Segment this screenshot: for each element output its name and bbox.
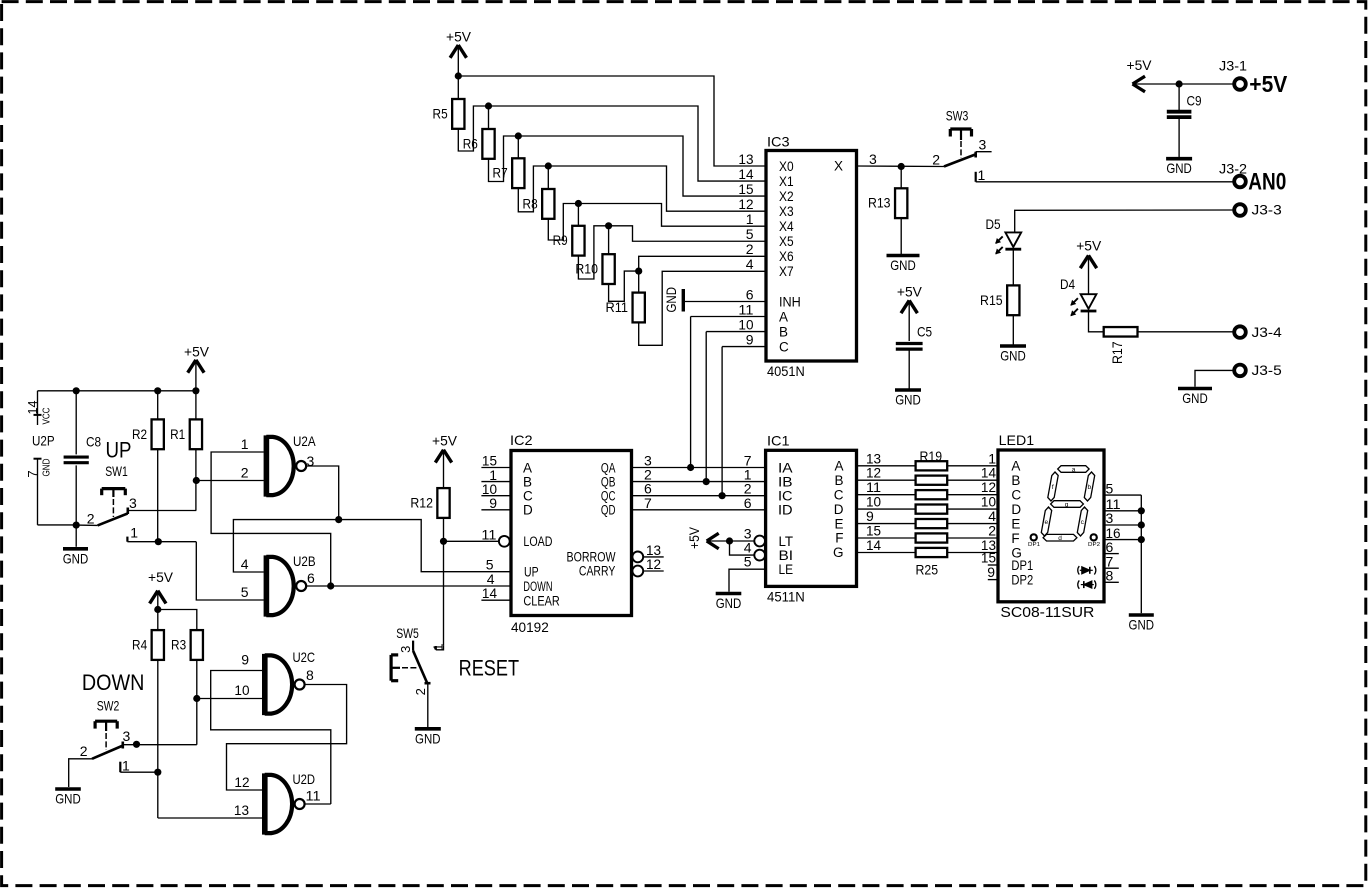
svg-text:R15: R15 (980, 292, 1003, 308)
svg-text:6: 6 (744, 495, 752, 511)
svg-text:7: 7 (644, 495, 652, 511)
svg-text:C: C (1011, 488, 1021, 503)
svg-text:b: b (1087, 484, 1091, 491)
svg-text:12: 12 (234, 774, 249, 790)
svg-text:f: f (1052, 484, 1054, 491)
svg-text:+5V: +5V (897, 283, 923, 299)
svg-text:G: G (833, 545, 844, 560)
svg-text:GND: GND (716, 595, 742, 611)
svg-text:DOWN: DOWN (82, 670, 144, 695)
svg-text:2: 2 (746, 241, 754, 257)
svg-text:B: B (779, 324, 788, 339)
svg-text:A: A (779, 309, 788, 324)
svg-text:U2A: U2A (293, 433, 316, 449)
svg-text:40192: 40192 (511, 619, 549, 635)
svg-text:F: F (1011, 531, 1019, 546)
svg-text:D: D (834, 502, 844, 517)
svg-text:14: 14 (482, 585, 497, 601)
svg-text:3: 3 (129, 495, 137, 511)
svg-text:BI: BI (779, 548, 794, 563)
svg-text:12: 12 (646, 556, 661, 572)
svg-text:QC: QC (601, 489, 616, 504)
svg-text:3: 3 (123, 728, 131, 744)
svg-text:1: 1 (241, 436, 249, 452)
svg-text:GND: GND (890, 257, 916, 273)
svg-text:SW2: SW2 (97, 698, 120, 714)
svg-text:VCC: VCC (42, 408, 53, 425)
svg-text:6: 6 (307, 570, 315, 586)
svg-text:4051N: 4051N (767, 363, 805, 379)
svg-text:X6: X6 (779, 249, 794, 264)
svg-text:LT: LT (779, 534, 794, 549)
svg-text:1: 1 (978, 167, 986, 183)
svg-text:9: 9 (241, 652, 249, 668)
svg-text:2: 2 (80, 743, 88, 759)
svg-text:DP2: DP2 (1088, 542, 1100, 548)
svg-text:1: 1 (122, 758, 130, 774)
svg-text:C: C (834, 487, 844, 502)
svg-text:F: F (835, 531, 843, 546)
svg-text:C8: C8 (86, 434, 101, 450)
svg-text:CARRY: CARRY (579, 564, 615, 579)
svg-text:3: 3 (979, 136, 987, 152)
svg-text:B: B (1011, 473, 1020, 488)
svg-text:ID: ID (778, 503, 793, 518)
svg-text:X1: X1 (779, 174, 794, 189)
svg-text:+5V: +5V (1127, 57, 1153, 73)
svg-text:4: 4 (487, 571, 495, 587)
svg-text:A: A (834, 459, 843, 474)
svg-text:IB: IB (778, 474, 793, 489)
svg-text:A: A (523, 460, 532, 475)
svg-text:X2: X2 (779, 189, 794, 204)
svg-text:5: 5 (241, 584, 249, 600)
svg-text:C5: C5 (917, 324, 932, 340)
svg-text:J3-1: J3-1 (1219, 57, 1247, 73)
svg-text:X7: X7 (779, 264, 794, 279)
svg-text:QB: QB (601, 474, 616, 489)
svg-text:U2D: U2D (293, 771, 316, 787)
svg-text:BORROW: BORROW (567, 549, 616, 564)
svg-text:1: 1 (130, 525, 138, 541)
svg-text:9: 9 (489, 495, 497, 511)
svg-text:X5: X5 (779, 234, 794, 249)
svg-text:1: 1 (746, 211, 754, 227)
svg-text:14: 14 (866, 537, 881, 553)
svg-text:J3-2: J3-2 (1219, 161, 1247, 177)
svg-text:3: 3 (1106, 510, 1114, 526)
svg-text:13: 13 (234, 802, 249, 818)
svg-text:+5V: +5V (446, 29, 472, 45)
svg-text:X3: X3 (779, 204, 794, 219)
svg-text:IA: IA (778, 460, 793, 475)
svg-text:2: 2 (413, 688, 428, 695)
svg-text:+5V: +5V (148, 569, 174, 585)
svg-text:IC3: IC3 (767, 134, 790, 150)
svg-text:4: 4 (746, 256, 754, 272)
svg-text:UP: UP (524, 565, 539, 580)
svg-text:R25: R25 (916, 562, 939, 578)
svg-text:U2P: U2P (32, 433, 55, 449)
svg-text:SW3: SW3 (946, 108, 969, 124)
svg-text:DOWN: DOWN (523, 579, 552, 594)
svg-text:X4: X4 (779, 219, 794, 234)
svg-text:J3-5: J3-5 (1252, 362, 1282, 378)
svg-text:U2B: U2B (293, 553, 316, 569)
svg-text:8: 8 (306, 667, 314, 683)
svg-text:UP: UP (106, 437, 132, 462)
svg-text:IC1: IC1 (767, 433, 790, 449)
svg-text:J3-3: J3-3 (1252, 202, 1282, 218)
svg-text:R6: R6 (463, 135, 478, 151)
svg-text:5: 5 (746, 226, 754, 242)
svg-text:7: 7 (25, 470, 40, 477)
svg-text:R3: R3 (171, 637, 186, 653)
svg-text:B: B (834, 473, 843, 488)
svg-text:15: 15 (738, 181, 753, 197)
svg-text:+5V: +5V (184, 343, 210, 359)
svg-text:C: C (523, 489, 533, 504)
svg-text:INH: INH (779, 294, 801, 309)
svg-text:C: C (779, 339, 789, 354)
svg-text:GND: GND (55, 791, 81, 807)
svg-text:A: A (1011, 459, 1020, 474)
svg-text:R17: R17 (1109, 341, 1125, 364)
svg-text:QD: QD (601, 503, 616, 518)
svg-text:IC: IC (778, 489, 793, 504)
svg-text:RESET: RESET (459, 655, 519, 680)
svg-text:+5V: +5V (432, 432, 458, 448)
svg-text:GND: GND (63, 550, 89, 566)
svg-text:CLEAR: CLEAR (523, 593, 560, 608)
svg-text:4511N: 4511N (767, 589, 805, 605)
svg-text:13: 13 (738, 151, 753, 167)
svg-text:D5: D5 (986, 216, 1001, 232)
svg-text:R13: R13 (868, 195, 891, 211)
svg-text:E: E (1011, 516, 1020, 531)
svg-text:12: 12 (738, 196, 753, 212)
svg-text:GND: GND (1166, 160, 1192, 176)
svg-text:DP1: DP1 (1011, 558, 1033, 573)
svg-text:LE: LE (779, 562, 794, 577)
svg-text:J3-4: J3-4 (1252, 324, 1282, 340)
svg-text:DP1: DP1 (1028, 542, 1040, 548)
svg-text:10: 10 (234, 682, 249, 698)
svg-text:B: B (523, 474, 532, 489)
svg-text:9: 9 (746, 331, 754, 347)
svg-text:6: 6 (1106, 539, 1114, 555)
svg-text:U2C: U2C (293, 649, 316, 665)
svg-text:5: 5 (1106, 480, 1114, 496)
svg-text:E: E (834, 516, 843, 531)
svg-text:1: 1 (431, 644, 446, 651)
svg-text:GND: GND (415, 730, 441, 746)
svg-text:R12: R12 (410, 495, 433, 511)
svg-text:14: 14 (738, 166, 753, 182)
svg-text:GND: GND (895, 392, 921, 408)
svg-text:+5V: +5V (686, 526, 702, 549)
svg-text:g: g (1065, 502, 1069, 509)
svg-text:C9: C9 (1187, 93, 1202, 109)
svg-text:R2: R2 (132, 426, 147, 442)
svg-text:4: 4 (241, 556, 249, 572)
svg-text:GND: GND (1000, 348, 1026, 364)
svg-text:R8: R8 (523, 195, 538, 211)
svg-text:GND: GND (663, 287, 679, 313)
svg-text:LOAD: LOAD (523, 534, 552, 549)
svg-text:SW1: SW1 (105, 463, 128, 479)
svg-text:11: 11 (738, 301, 753, 317)
svg-text:10: 10 (738, 316, 753, 332)
svg-text:6: 6 (746, 286, 754, 302)
svg-text:GND: GND (42, 459, 53, 477)
svg-text:11: 11 (481, 526, 496, 542)
svg-text:D: D (523, 503, 533, 518)
svg-text:R1: R1 (170, 426, 185, 442)
svg-text:3: 3 (869, 151, 877, 167)
svg-text:8: 8 (1106, 568, 1114, 584)
svg-text:IC2: IC2 (510, 432, 533, 448)
svg-text:11: 11 (306, 788, 321, 804)
svg-text:GND: GND (1182, 390, 1208, 406)
svg-text:2: 2 (87, 511, 95, 527)
svg-text:14: 14 (25, 401, 40, 415)
svg-text:3: 3 (307, 453, 315, 469)
svg-text:R5: R5 (433, 105, 448, 121)
svg-text:SC08-11SUR: SC08-11SUR (1000, 604, 1094, 621)
svg-text:9: 9 (987, 564, 995, 580)
svg-text:e: e (1044, 519, 1048, 526)
svg-text:3: 3 (398, 646, 413, 653)
svg-text:GND: GND (1129, 617, 1155, 633)
svg-text:a: a (1072, 467, 1076, 474)
svg-text:D4: D4 (1060, 276, 1075, 292)
svg-text:DP2: DP2 (1011, 572, 1033, 587)
svg-text:5: 5 (744, 554, 752, 570)
svg-text:QA: QA (601, 460, 616, 475)
svg-text:LED1: LED1 (999, 432, 1035, 448)
svg-text:+5V: +5V (1249, 71, 1288, 97)
svg-text:X: X (834, 159, 843, 174)
svg-text:AN0: AN0 (1248, 169, 1286, 196)
svg-text:d: d (1058, 535, 1062, 542)
svg-text:R7: R7 (493, 165, 508, 181)
svg-text:R4: R4 (132, 637, 147, 653)
svg-text:SW5: SW5 (396, 625, 419, 641)
svg-text:2: 2 (932, 151, 940, 167)
svg-text:X0: X0 (779, 159, 794, 174)
svg-text:+5V: +5V (1076, 237, 1102, 253)
svg-text:2: 2 (241, 465, 249, 481)
svg-text:D: D (1011, 502, 1021, 517)
